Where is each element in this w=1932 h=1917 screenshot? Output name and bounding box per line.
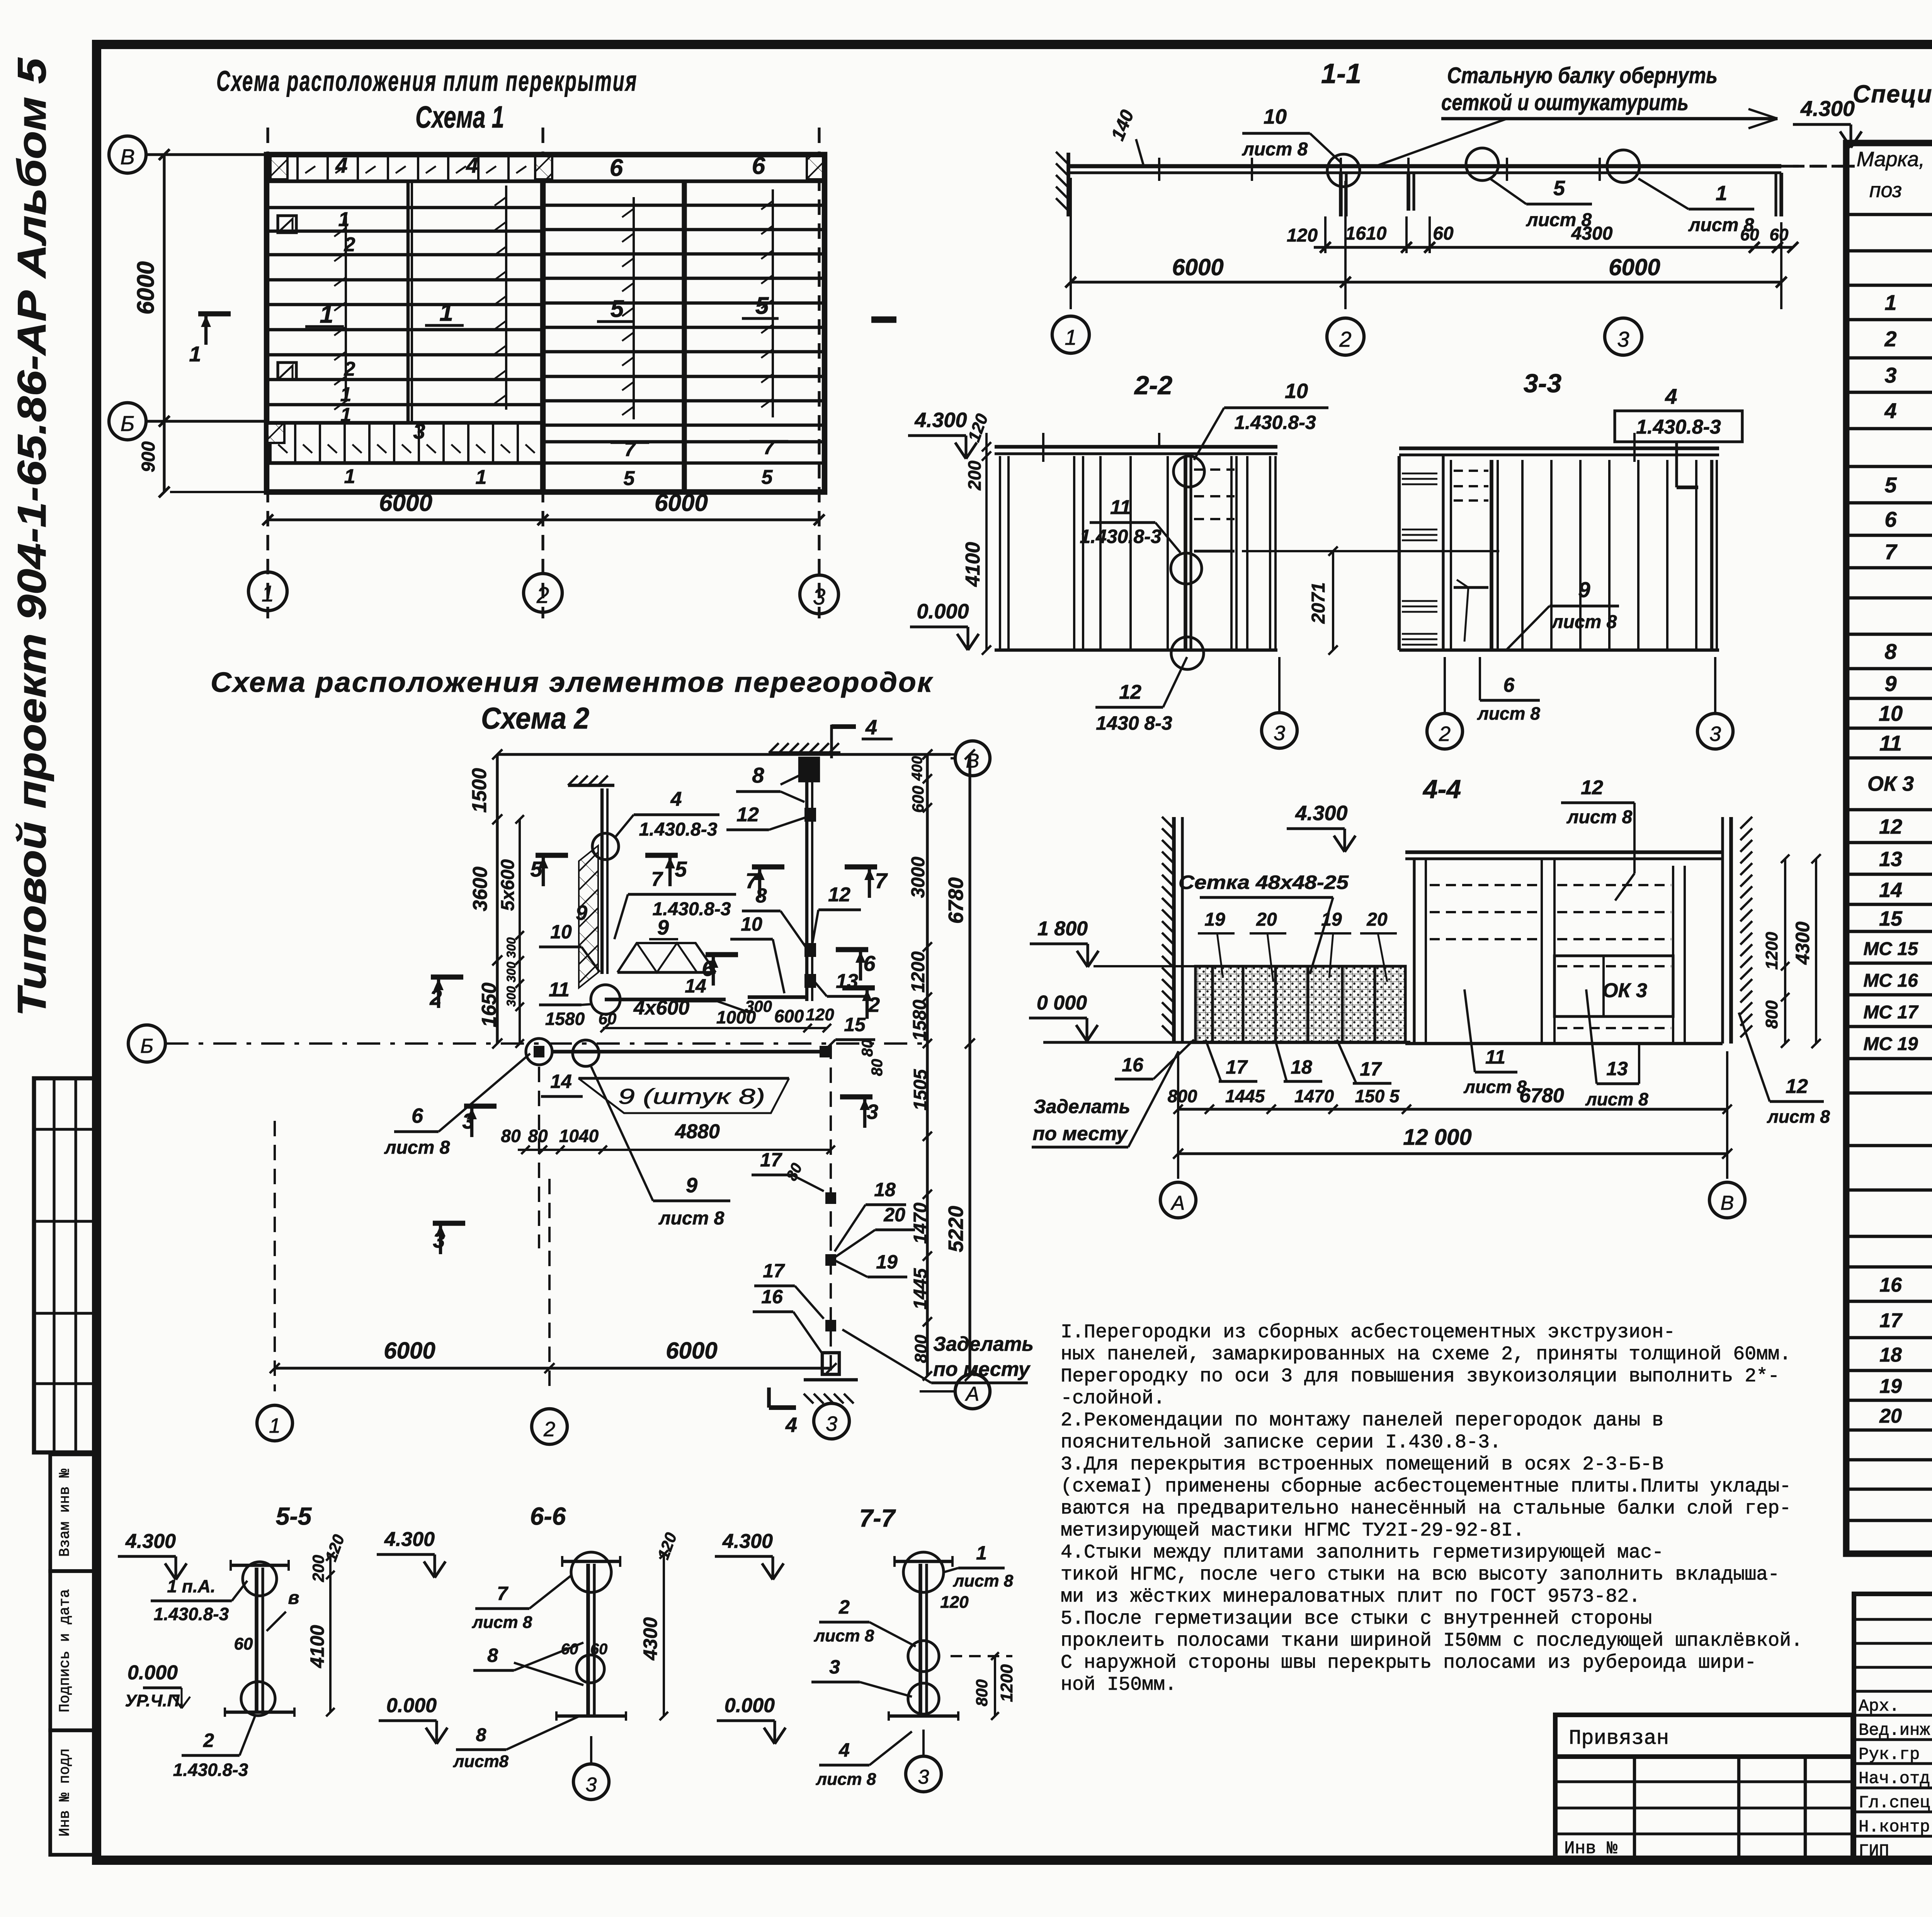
svg-text:1580: 1580 bbox=[910, 999, 930, 1041]
svg-text:17: 17 bbox=[1879, 1309, 1903, 1332]
svg-text:3: 3 bbox=[813, 584, 825, 609]
svg-text:20: 20 bbox=[1879, 1405, 1902, 1427]
svg-text:120: 120 bbox=[806, 1005, 834, 1024]
schema 1 corner flag plates bbox=[278, 216, 296, 380]
schema 1 right bay plate lines bbox=[543, 205, 825, 463]
svg-text:1: 1 bbox=[189, 342, 201, 366]
axis line 1 bbox=[266, 128, 269, 618]
axis circle Б bbox=[109, 403, 146, 440]
svg-text:Заделать: Заделать bbox=[1034, 1096, 1130, 1117]
schema 1 left bay mid joint bbox=[406, 181, 410, 423]
svg-text:14: 14 bbox=[550, 1071, 572, 1092]
axis line В bbox=[146, 153, 267, 156]
svg-text:4.Стыки между плитами заполнит: 4.Стыки между плитами заполнить герметиз… bbox=[1061, 1542, 1663, 1564]
svg-text:20: 20 bbox=[883, 1204, 905, 1226]
section 1-1 axis circle 2 bbox=[1327, 318, 1364, 355]
svg-text:лист 8: лист 8 bbox=[384, 1137, 450, 1158]
svg-text:4100: 4100 bbox=[306, 1625, 328, 1668]
svg-text:300: 300 bbox=[745, 997, 772, 1015]
section 1-1 elevation 4.300 bbox=[1793, 96, 1862, 166]
svg-text:17: 17 bbox=[1226, 1056, 1248, 1078]
svg-text:1.430.8-3: 1.430.8-3 bbox=[1080, 526, 1161, 547]
svg-text:1: 1 bbox=[340, 383, 352, 406]
svg-text:8: 8 bbox=[476, 1725, 486, 1745]
svg-text:12: 12 bbox=[1879, 815, 1902, 838]
schema 2 labels 15 17 18 20 19 17 16 bbox=[752, 1014, 915, 1355]
svg-text:300: 300 bbox=[504, 937, 518, 958]
svg-text:4.300: 4.300 bbox=[384, 1528, 435, 1551]
schema 1 section mark 1 right bbox=[871, 317, 896, 323]
section 2-2 top beam bbox=[995, 433, 1277, 462]
svg-text:7: 7 bbox=[1884, 540, 1898, 564]
svg-text:60: 60 bbox=[1740, 225, 1759, 244]
schema 2 trapezoid 9 штук 8 bbox=[578, 1078, 789, 1113]
svg-text:Схема расположения элементов: Схема расположения элементов перегородок bbox=[211, 667, 934, 698]
svg-text:1040: 1040 bbox=[559, 1126, 599, 1146]
svg-text:1580: 1580 bbox=[545, 1009, 585, 1029]
svg-text:6000: 6000 bbox=[384, 1338, 435, 1364]
schema 1 vertical dimension 6000/900 bbox=[133, 149, 267, 497]
svg-text:6000: 6000 bbox=[666, 1338, 717, 1364]
section 2-2 callout 11 1.430.8-3 bbox=[1080, 496, 1180, 553]
svg-text:4: 4 bbox=[865, 716, 877, 739]
svg-text:лист 8: лист 8 bbox=[1767, 1107, 1830, 1127]
svg-text:5220: 5220 bbox=[944, 1206, 968, 1252]
specification table rows bbox=[1863, 220, 1932, 1549]
svg-text:Привязан: Привязан bbox=[1569, 1727, 1669, 1750]
svg-text:3: 3 bbox=[918, 1766, 929, 1788]
svg-text:1.430.8-3: 1.430.8-3 bbox=[653, 899, 731, 919]
svg-text:лист 8: лист 8 bbox=[1242, 139, 1308, 160]
svg-text:600: 600 bbox=[909, 786, 927, 813]
svg-text:ных панелей, замаркированных н: ных панелей, замаркированных на схеме 2,… bbox=[1061, 1343, 1791, 1365]
svg-text:18: 18 bbox=[1291, 1056, 1312, 1078]
section 2-2 elevation 0.000 bbox=[910, 600, 979, 650]
svg-text:Арх.: Арх. bbox=[1859, 1697, 1900, 1716]
notes paragraph bbox=[1061, 1321, 1803, 1696]
svg-text:2: 2 bbox=[838, 1596, 850, 1618]
svg-text:9: 9 bbox=[657, 916, 669, 939]
svg-text:4.300: 4.300 bbox=[1800, 96, 1855, 121]
svg-text:15: 15 bbox=[844, 1014, 866, 1035]
svg-text:5: 5 bbox=[762, 466, 773, 489]
section 2-2 elevation 4.300 bbox=[908, 409, 977, 459]
svg-text:80: 80 bbox=[859, 1040, 876, 1057]
svg-text:800: 800 bbox=[1762, 1000, 1781, 1029]
section 4-4 dim chain 800 1445 1470 1505 6780 bbox=[1168, 1084, 1732, 1114]
schema 2 callout circle 4 1.430.8-3 bbox=[592, 788, 719, 860]
svg-text:ваются на предварительно нанес: ваются на предварительно нанесённый на с… bbox=[1061, 1498, 1791, 1520]
svg-text:1470: 1470 bbox=[910, 1202, 931, 1244]
svg-text:80: 80 bbox=[501, 1126, 521, 1146]
svg-text:4: 4 bbox=[1884, 398, 1896, 423]
axis line Б bbox=[146, 420, 267, 422]
section 2-2 bottom circle 3 bbox=[1262, 657, 1297, 748]
svg-text:Сетка 48х48-25: Сетка 48х48-25 bbox=[1179, 872, 1349, 893]
svg-text:9: 9 bbox=[576, 901, 587, 924]
svg-text:В: В bbox=[1721, 1192, 1734, 1214]
svg-text:Типовой проект 904-1-65.86-А: Типовой проект 904-1-65.86-АР Альбом 5 bbox=[10, 57, 54, 1016]
svg-text:6-6: 6-6 bbox=[530, 1502, 566, 1530]
svg-text:2: 2 bbox=[429, 985, 442, 1010]
svg-text:300: 300 bbox=[504, 962, 518, 982]
svg-text:Нач.отд: Нач.отд bbox=[1859, 1769, 1930, 1789]
svg-text:1.430.8-3: 1.430.8-3 bbox=[173, 1760, 248, 1780]
section 4-4 left wall bbox=[1162, 817, 1182, 1044]
svg-text:6780: 6780 bbox=[944, 877, 968, 924]
svg-text:2: 2 bbox=[868, 993, 880, 1016]
schema 1 horizontal dimension 6000 6000 bbox=[262, 490, 825, 525]
svg-text:(схемаI) применены сборные асб: (схемаI) применены сборные асбестоцемент… bbox=[1061, 1476, 1791, 1498]
section 4-4 right dim 4300 1200 800 bbox=[1762, 854, 1821, 1048]
svg-text:1: 1 bbox=[1716, 182, 1727, 205]
svg-text:4: 4 bbox=[670, 788, 682, 810]
schema 2 callout 10 left bbox=[539, 921, 600, 972]
title block names table bbox=[1854, 1594, 1932, 1861]
svg-text:по месту: по месту bbox=[933, 1358, 1031, 1381]
svg-text:11: 11 bbox=[549, 979, 570, 1001]
svg-text:2: 2 bbox=[536, 583, 549, 608]
svg-text:1.430.8-3: 1.430.8-3 bbox=[1636, 416, 1721, 438]
section 3-3 callout 9 лист 8 bbox=[1507, 577, 1619, 649]
section 1-1 dashed tail bbox=[1781, 165, 1855, 167]
schema 2 left wall panel with hatch 9 bbox=[568, 776, 614, 988]
svg-text:в: в bbox=[288, 1588, 299, 1608]
svg-text:1.430.8-3: 1.430.8-3 bbox=[1234, 412, 1316, 433]
svg-text:17: 17 bbox=[1360, 1058, 1382, 1080]
svg-text:19: 19 bbox=[1204, 909, 1225, 930]
svg-text:2: 2 bbox=[203, 1730, 214, 1751]
svg-text:9: 9 bbox=[1884, 671, 1896, 696]
section 4-4 callout 11 лист 8 bbox=[1463, 989, 1527, 1097]
svg-text:поз: поз bbox=[1869, 179, 1902, 202]
section 1-1 axis circle 3 bbox=[1605, 318, 1642, 355]
svg-text:I.Перегородки из сборных асбес: I.Перегородки из сборных асбестоцементны… bbox=[1061, 1321, 1675, 1343]
schema 2 section mark 2 left bbox=[429, 977, 463, 1010]
schema 1 axis circle 2 bbox=[524, 574, 562, 612]
axis line 2 bbox=[541, 128, 544, 618]
svg-text:1445: 1445 bbox=[910, 1268, 931, 1309]
svg-text:3: 3 bbox=[826, 1412, 837, 1435]
svg-text:3: 3 bbox=[1274, 722, 1285, 745]
svg-text:20: 20 bbox=[1366, 909, 1388, 930]
svg-text:800: 800 bbox=[912, 1335, 930, 1363]
svg-text:300: 300 bbox=[504, 986, 518, 1007]
svg-text:4880: 4880 bbox=[675, 1120, 720, 1143]
section 4-4 callout 12 лист 8 right bbox=[1739, 1013, 1830, 1127]
svg-text:3000: 3000 bbox=[908, 856, 929, 898]
svg-text:4300: 4300 bbox=[1792, 921, 1813, 965]
section 1-1 callout 1 лист 8 bbox=[1638, 179, 1754, 235]
svg-text:Стальную балку обернуть: Стальную балку обернуть bbox=[1447, 63, 1718, 88]
section 3-3 bottom circle 2 bbox=[1427, 657, 1463, 749]
section 1-1 posts bbox=[1341, 173, 1781, 216]
svg-text:12: 12 bbox=[828, 884, 850, 906]
svg-text:ОК 3: ОК 3 bbox=[1602, 979, 1647, 1002]
section 4-4 elevation 0000 bbox=[1029, 992, 1190, 1042]
svg-text:Схема расположения плит пер: Схема расположения плит перекрытия bbox=[216, 65, 638, 97]
schema 2 partition wall on axis 3 top bbox=[769, 743, 840, 1001]
section 4-4 callout 13 лист 8 bbox=[1585, 989, 1648, 1109]
schema 2 callout 13 bbox=[815, 970, 869, 996]
svg-text:4: 4 bbox=[335, 153, 347, 177]
svg-text:ми из жёстких минераловатных п: ми из жёстких минераловатных плит по ГОС… bbox=[1061, 1586, 1640, 1608]
svg-text:Заделать: Заделать bbox=[933, 1333, 1034, 1355]
axis line 3 bbox=[818, 128, 820, 618]
schema 2 axis circle В bbox=[951, 741, 990, 776]
svg-text:1: 1 bbox=[439, 298, 453, 326]
section 2-2 joint circles bbox=[1171, 456, 1204, 669]
schema 1 right bay mid divider bbox=[682, 181, 687, 492]
section 4-4 elevation 4.300 bbox=[1287, 802, 1355, 852]
section 5-5 drawing bbox=[118, 1530, 348, 1780]
svg-text:по месту: по месту bbox=[1033, 1123, 1128, 1144]
svg-text:7: 7 bbox=[651, 868, 663, 890]
svg-text:МС 17: МС 17 bbox=[1863, 1002, 1919, 1023]
svg-text:3: 3 bbox=[1884, 363, 1896, 387]
svg-text:Взам инв №: Взам инв № bbox=[57, 1469, 73, 1557]
svg-text:лист 8: лист 8 bbox=[1551, 612, 1617, 632]
section 4-4 mesh labels 19 20 19 20 bbox=[1179, 872, 1397, 982]
section 2-2 callout 10 1.430.8-3 bbox=[1194, 380, 1328, 460]
schema 1 left bay plate lines bbox=[267, 208, 543, 463]
svg-text:Марка,: Марка, bbox=[1857, 148, 1925, 171]
svg-text:6000: 6000 bbox=[655, 490, 708, 516]
left margin strip boxes (Взам инв №, Подпись и дата, Инв № подл) bbox=[50, 1454, 98, 1855]
svg-text:4.300: 4.300 bbox=[125, 1530, 176, 1553]
svg-text:лист 8: лист 8 bbox=[816, 1770, 876, 1789]
svg-text:2: 2 bbox=[1339, 327, 1351, 351]
svg-text:3: 3 bbox=[867, 1100, 878, 1124]
svg-text:2: 2 bbox=[1439, 722, 1451, 746]
svg-text:14: 14 bbox=[1879, 878, 1902, 902]
schema 2 callout 9 лист 8 lower bbox=[591, 1067, 730, 1229]
svg-text:1200: 1200 bbox=[908, 951, 929, 993]
schema 1 plan outline bbox=[267, 155, 825, 492]
title block привязан box bbox=[1555, 1715, 1853, 1757]
svg-text:1: 1 bbox=[976, 1542, 987, 1564]
svg-text:Гл.спец: Гл.спец bbox=[1859, 1793, 1930, 1813]
svg-text:1200: 1200 bbox=[1762, 932, 1781, 970]
svg-text:18: 18 bbox=[874, 1179, 896, 1200]
svg-text:ГИП: ГИП bbox=[1859, 1842, 1889, 1861]
section 4-4 right wall bbox=[1723, 817, 1752, 1044]
svg-text:3: 3 bbox=[462, 1109, 474, 1133]
svg-text:А: А bbox=[965, 1383, 980, 1405]
svg-text:Схема 2: Схема 2 bbox=[481, 701, 589, 735]
svg-text:12 000: 12 000 bbox=[1403, 1125, 1471, 1150]
schema 2 axis circle 3 bbox=[814, 1403, 849, 1439]
rotated sheet title: Типовой проект 904-1-65.86-АР Альбом 5 bbox=[10, 57, 54, 1016]
section 4-4 elevation 1800 bbox=[1030, 918, 1196, 967]
svg-text:9: 9 bbox=[686, 1174, 697, 1197]
schema 2 section marks 7 7 bbox=[745, 867, 888, 898]
svg-text:10: 10 bbox=[550, 921, 572, 943]
svg-text:2: 2 bbox=[543, 1418, 555, 1441]
schema 2 bottom dimension 6000 6000 bbox=[270, 1121, 837, 1391]
svg-text:лист 8: лист 8 bbox=[1566, 807, 1633, 827]
svg-text:5х600: 5х600 bbox=[498, 859, 518, 911]
svg-text:4100: 4100 bbox=[962, 542, 984, 587]
section 1-1 axis circle 1 bbox=[1052, 316, 1089, 353]
section 1-1 dimension chain 120 1610 60 4300 60 60 bbox=[1287, 216, 1798, 253]
svg-text:1: 1 bbox=[269, 1414, 281, 1437]
schema 2 section marks 5 5 bbox=[530, 855, 687, 886]
svg-text:3: 3 bbox=[586, 1774, 597, 1796]
svg-text:6000: 6000 bbox=[379, 490, 432, 516]
section 2-2 dims 120 200 4100 bbox=[962, 411, 992, 655]
svg-text:5: 5 bbox=[611, 296, 624, 322]
svg-text:4: 4 bbox=[838, 1739, 850, 1761]
schema 2 callout 6 лист 8 bbox=[384, 1054, 530, 1158]
svg-text:Вед.инж: Вед.инж bbox=[1859, 1721, 1930, 1740]
svg-text:ОК 3: ОК 3 bbox=[1867, 772, 1914, 795]
svg-text:Схема 1: Схема 1 bbox=[415, 100, 504, 134]
schema 2 bottom wall line left bbox=[605, 972, 807, 999]
svg-text:3600: 3600 bbox=[469, 867, 492, 911]
svg-text:17: 17 bbox=[763, 1260, 785, 1282]
svg-text:600: 600 bbox=[774, 1006, 804, 1026]
svg-text:6: 6 bbox=[863, 951, 876, 976]
svg-text:Инв № подл: Инв № подл bbox=[57, 1748, 73, 1837]
section 1-1 callout 5 лист 8 bbox=[1490, 177, 1592, 230]
svg-text:17: 17 bbox=[760, 1149, 782, 1171]
svg-text:60: 60 bbox=[234, 1634, 253, 1653]
svg-text:Спецификация к схемам распо: Спецификация к схемам расположения элеме… bbox=[1853, 80, 1932, 108]
svg-text:8: 8 bbox=[752, 763, 764, 787]
svg-text:120: 120 bbox=[1287, 225, 1318, 246]
svg-text:8: 8 bbox=[1884, 639, 1897, 664]
svg-text:МС 16: МС 16 bbox=[1863, 970, 1918, 991]
svg-text:6000: 6000 bbox=[1172, 254, 1223, 280]
svg-text:2071: 2071 bbox=[1308, 582, 1329, 624]
left margin stamp table bbox=[34, 1078, 98, 1452]
section 2-2 panels bbox=[995, 456, 1277, 650]
svg-text:16: 16 bbox=[1122, 1054, 1144, 1076]
svg-text:3: 3 bbox=[1709, 722, 1721, 746]
schema 2 section mark 3 left bbox=[433, 1106, 497, 1254]
svg-text:4: 4 bbox=[785, 1413, 797, 1437]
svg-text:3-3: 3-3 bbox=[1524, 369, 1561, 398]
svg-text:6: 6 bbox=[610, 155, 623, 181]
svg-text:1 800: 1 800 bbox=[1037, 918, 1088, 940]
svg-text:1200: 1200 bbox=[997, 1664, 1016, 1702]
section 1-1 beam line bbox=[1068, 158, 1781, 181]
section 3-3 left layered panel bbox=[1399, 456, 1443, 650]
svg-text:1505: 1505 bbox=[910, 1069, 931, 1110]
schema 1 title bbox=[216, 65, 638, 134]
svg-text:8: 8 bbox=[756, 885, 767, 907]
svg-text:11: 11 bbox=[1110, 496, 1131, 519]
title block инв № box bbox=[1555, 1757, 1853, 1859]
section 1-1 left wall hatch bbox=[1056, 152, 1068, 216]
schema 2 title bbox=[211, 667, 934, 735]
svg-text:лист 8: лист 8 bbox=[472, 1613, 532, 1632]
svg-text:метизирующей мастики НГМС ТУ2I: метизирующей мастики НГМС ТУ2I-29-92-8I. bbox=[1061, 1520, 1524, 1542]
svg-text:4300: 4300 bbox=[1571, 223, 1613, 244]
axis circle В bbox=[109, 136, 146, 173]
section 4-4 right room panels bbox=[1405, 859, 1723, 1044]
section 4-4 labels 16 17 18 17 bbox=[1115, 1040, 1391, 1083]
schema 2 callout 11 bbox=[539, 979, 620, 1014]
svg-text:13: 13 bbox=[1879, 848, 1902, 871]
svg-text:1: 1 bbox=[338, 208, 350, 231]
svg-text:140: 140 bbox=[1107, 107, 1138, 143]
section 7-7 drawing bbox=[715, 1530, 1016, 1792]
svg-text:2: 2 bbox=[344, 358, 355, 380]
section 2-2 dim 2071 bbox=[1242, 546, 1413, 655]
svg-text:800: 800 bbox=[973, 1679, 991, 1706]
svg-text:3.Для перекрытия встроенных по: 3.Для перекрытия встроенных помещений в … bbox=[1061, 1454, 1663, 1476]
svg-text:проклеить полосами ткани ширин: проклеить полосами ткани шириной I50мм с… bbox=[1061, 1630, 1803, 1652]
svg-text:1 п.А.: 1 п.А. bbox=[167, 1576, 215, 1596]
section 4-4 axis circle А bbox=[1160, 1182, 1196, 1218]
svg-text:1: 1 bbox=[1065, 325, 1077, 349]
schema 2 section mark 4 bottom bbox=[769, 1388, 797, 1437]
section 3-3 top beam bbox=[1399, 433, 1719, 462]
svg-text:900: 900 bbox=[138, 441, 159, 472]
svg-text:Н.контр: Н.контр bbox=[1859, 1818, 1930, 1837]
svg-text:пояснительной записке серии I.: пояснительной записке серии I.430.8-3. bbox=[1061, 1432, 1501, 1454]
svg-text:4: 4 bbox=[466, 153, 478, 177]
svg-text:10: 10 bbox=[1879, 701, 1903, 725]
svg-text:1.430.8-3: 1.430.8-3 bbox=[639, 819, 718, 840]
svg-text:19: 19 bbox=[876, 1251, 898, 1273]
svg-text:1: 1 bbox=[340, 404, 351, 426]
schema 2 right vertical dimension chains bbox=[908, 749, 975, 1381]
section 4-4 axis circle В bbox=[1709, 1182, 1745, 1218]
svg-text:5: 5 bbox=[755, 293, 769, 319]
svg-text:1650: 1650 bbox=[478, 982, 500, 1027]
svg-text:120: 120 bbox=[940, 1593, 969, 1612]
svg-text:10: 10 bbox=[1264, 105, 1287, 128]
svg-text:6: 6 bbox=[752, 153, 765, 179]
svg-text:400: 400 bbox=[909, 756, 925, 781]
svg-text:1: 1 bbox=[344, 465, 355, 488]
schema 2 axis Б circle and line bbox=[128, 1025, 927, 1062]
svg-text:6000: 6000 bbox=[1609, 254, 1660, 280]
svg-text:0.000: 0.000 bbox=[917, 600, 969, 623]
svg-text:1: 1 bbox=[262, 581, 274, 606]
svg-text:1: 1 bbox=[320, 300, 333, 328]
schema 2 section mark 3 right bbox=[840, 1097, 878, 1128]
svg-text:Подпись и дата: Подпись и дата bbox=[57, 1589, 73, 1712]
schema 1 plate joint tick lines bbox=[334, 186, 773, 419]
section 3-3 door frame bbox=[1451, 460, 1498, 650]
svg-text:60: 60 bbox=[561, 1641, 578, 1658]
schema 2 callout 7 1.430.8-3 bbox=[614, 868, 736, 939]
svg-text:60: 60 bbox=[1433, 223, 1454, 244]
svg-text:0.000: 0.000 bbox=[386, 1694, 437, 1717]
svg-text:1430 8-3: 1430 8-3 bbox=[1096, 712, 1172, 734]
svg-text:6: 6 bbox=[412, 1104, 423, 1127]
svg-text:120: 120 bbox=[654, 1530, 680, 1562]
svg-text:5.После герметизации все стыки: 5.После герметизации все стыки с внутрен… bbox=[1061, 1608, 1652, 1630]
svg-text:11: 11 bbox=[1879, 731, 1902, 755]
schema 2 top dimension line bbox=[492, 749, 955, 759]
schema 2 заделать по месту bbox=[842, 1330, 1034, 1383]
schema 2 axis circle 2 bbox=[532, 1409, 567, 1444]
svg-text:тикой НГМС, после чего стыки н: тикой НГМС, после чего стыки на всю высо… bbox=[1061, 1564, 1779, 1586]
svg-text:1: 1 bbox=[1884, 290, 1896, 315]
svg-text:12: 12 bbox=[1786, 1075, 1808, 1098]
svg-text:7: 7 bbox=[497, 1583, 509, 1604]
svg-text:60: 60 bbox=[1770, 225, 1789, 244]
section 6-6 drawing bbox=[377, 1528, 680, 1800]
schema 1 plate labels bbox=[305, 153, 788, 490]
svg-text:Рук.гр: Рук.гр bbox=[1859, 1745, 1920, 1764]
svg-text:5-5: 5-5 bbox=[276, 1502, 312, 1530]
